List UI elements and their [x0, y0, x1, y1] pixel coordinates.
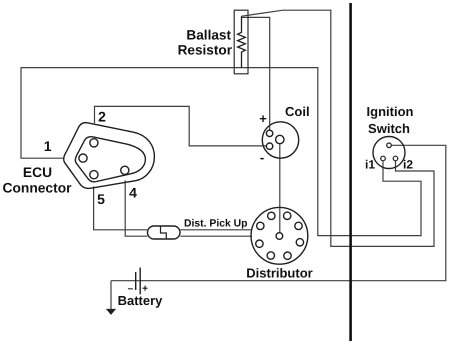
coil center HT pin [276, 135, 284, 143]
ground [106, 309, 116, 315]
resistor R1 element [238, 16, 246, 67]
ignition switch i1 pin [381, 156, 386, 161]
wire ballast resistor top to coil positive [242, 17, 270, 130]
svg-text:Switch: Switch [368, 121, 410, 136]
ignition switch i2 pin [393, 156, 398, 161]
svg-text:Dist. Pick Up: Dist. Pick Up [184, 218, 248, 230]
ECU pin bottom [90, 171, 98, 179]
coil negative pin [266, 143, 272, 149]
svg-text:Connector: Connector [3, 181, 73, 196]
svg-text:Resistor: Resistor [178, 43, 233, 58]
svg-text:4: 4 [129, 185, 137, 201]
svg-text:Ballast: Ballast [186, 28, 231, 43]
svg-text:Coil: Coil [285, 104, 310, 119]
firewall thick line [349, 3, 352, 341]
svg-text:+: + [259, 111, 267, 126]
wire pickup to distributor lower [180, 235, 252, 237]
ECU pin left [79, 154, 87, 162]
ECU pin top [90, 139, 98, 147]
svg-text:2: 2 [98, 108, 106, 124]
wire ignition switch top pin to battery positive [111, 145, 446, 280]
ignition switch top pin [387, 143, 392, 148]
distributor towers [256, 212, 304, 259]
svg-text:i1: i1 [365, 158, 375, 172]
coil positive pin [266, 130, 272, 136]
wire ECU pin1 to ignition switch i1 [21, 68, 421, 236]
svg-text:-: - [260, 150, 264, 165]
svg-text:Battery: Battery [118, 293, 164, 308]
wire battery negative to ground [110, 281, 112, 309]
battery B1 negative plate [135, 272, 137, 290]
coil [262, 122, 298, 158]
wire ECU pin4 to pickup connector [125, 180, 147, 236]
svg-text:Distributor: Distributor [246, 266, 312, 281]
svg-text:ECU: ECU [23, 165, 52, 180]
wire coil HT lead to distributor center [279, 144, 281, 233]
ballast resistor R1 box [234, 10, 248, 74]
wire ballast resistor top to ignition switch i2 [242, 10, 435, 246]
ECU pin right [121, 166, 129, 174]
svg-text:i2: i2 [403, 158, 413, 172]
ignition switch [373, 137, 405, 169]
distributor [251, 207, 308, 264]
svg-text:1: 1 [44, 138, 52, 154]
ECU connector outline [64, 123, 155, 189]
battery B1 positive plate [139, 268, 141, 295]
distributor center pin [276, 233, 283, 240]
ECU connector inner outline [75, 137, 145, 182]
svg-text:Ignition: Ignition [367, 104, 414, 119]
wire ECU pin5 to pickup connector [94, 187, 148, 230]
distributor pickup connector [148, 226, 181, 239]
wire ECU pin2 to coil negative [95, 106, 267, 145]
wire pickup to distributor upper [180, 229, 251, 231]
svg-text:5: 5 [97, 191, 105, 207]
